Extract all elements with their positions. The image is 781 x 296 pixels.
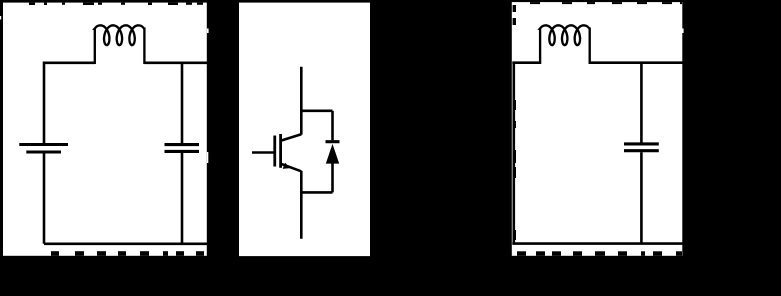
capacitor C2 bottom plate	[624, 149, 659, 152]
IGBT body bar	[279, 134, 282, 168]
IGBT collector stub	[300, 67, 303, 135]
panel: source sub-circuit background	[3, 3, 207, 256]
clipped label remnants: panel 3 left edge	[513, 5, 516, 240]
wire inductor to right edge	[144, 61, 207, 64]
diode cathode wire	[331, 111, 334, 141]
white remnant specks at panel edges	[207, 29, 209, 34]
wire battery bottom	[43, 153, 46, 244]
panel: switch sub-circuit background	[239, 3, 370, 257]
clipped caption remnants: panel 1 top	[29, 3, 203, 5]
clipped caption remnants: panel 3 bottom	[517, 251, 682, 256]
IGBT emitter slant	[281, 164, 302, 172]
IGBT gate lead	[252, 151, 274, 154]
inductor L1	[95, 25, 145, 64]
capacitor C1 bottom plate	[165, 150, 200, 153]
panel: output sub-circuit background	[512, 2, 683, 256]
IGBT gate bar	[273, 136, 276, 167]
inductor L2	[540, 25, 590, 64]
wire bottom rail panel 1	[44, 243, 207, 246]
capacitor C1 top plate	[165, 143, 200, 146]
wire inductor to right edge panel 3	[590, 61, 683, 64]
diode top branch wire	[301, 110, 332, 113]
clipped caption remnants: panel 1 bottom	[51, 251, 204, 256]
wire capacitor C1 top branch	[181, 63, 184, 143]
IGBT emitter stub	[300, 171, 303, 239]
wire capacitor C2 bottom branch	[640, 152, 643, 243]
wire battery top to inductor	[44, 63, 95, 144]
diode D1 cathode bar	[326, 140, 340, 143]
diode anode wire	[331, 163, 334, 193]
diode D1 triangle	[326, 144, 339, 164]
wire left rail panel 3	[512, 63, 515, 244]
wire bottom rail panel 3	[512, 242, 682, 245]
wire capacitor C2 top branch	[640, 63, 643, 143]
wire capacitor C1 bottom branch	[181, 153, 184, 244]
IGBT emitter arrow	[283, 163, 291, 169]
wire top rail to inductor panel 3	[512, 61, 540, 64]
capacitor C2 top plate	[624, 142, 659, 145]
battery B1 short plate	[26, 150, 61, 153]
clipped caption remnants: panel 3 top	[530, 2, 682, 4]
IGBT collector slant	[281, 134, 302, 141]
battery B1 long plate	[19, 143, 68, 146]
diode bottom branch wire	[301, 191, 332, 194]
